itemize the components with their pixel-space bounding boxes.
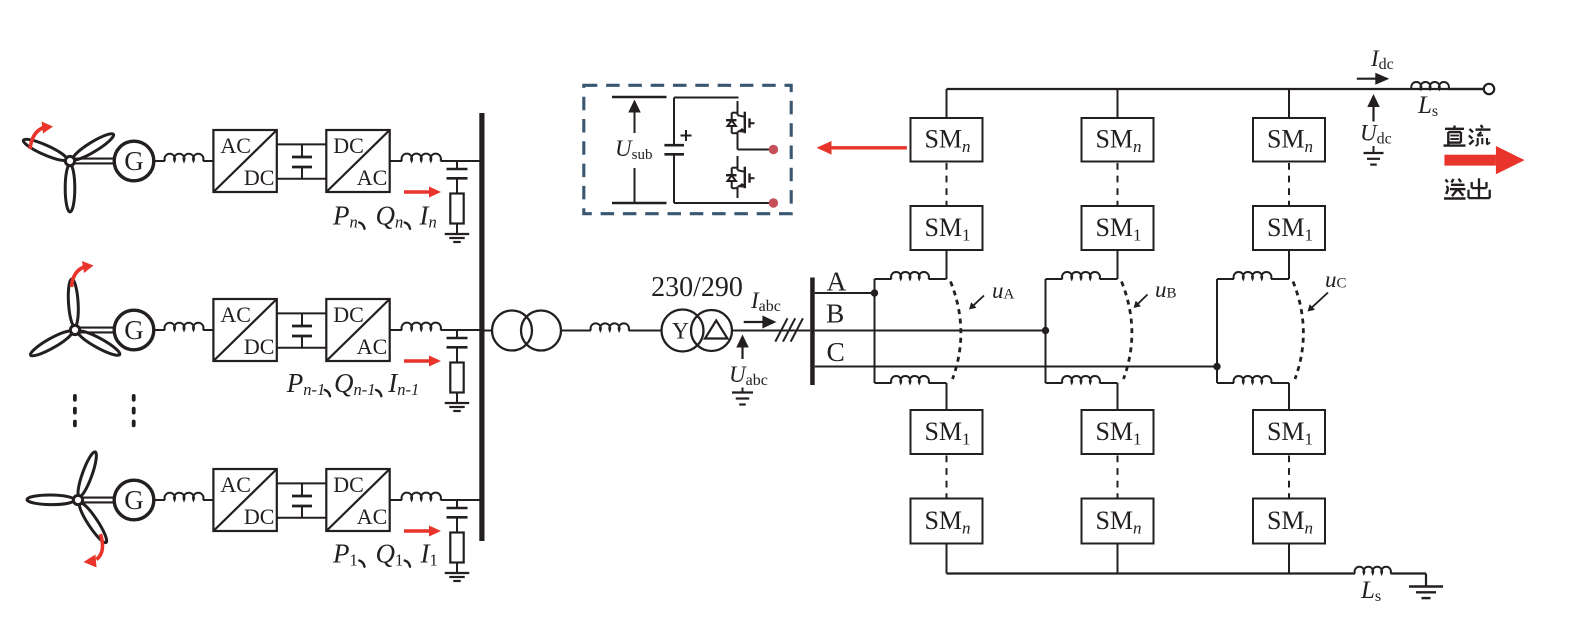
dashed link (phase B upper) [1117, 163, 1119, 206]
wire L2a to AC/DC [203, 329, 213, 331]
inductor L2b [402, 323, 441, 330]
shunt capacitor (WT3) [447, 500, 468, 533]
DC-link wires (WT3) [277, 483, 327, 517]
arm inductor (phase C lower) [1217, 376, 1289, 383]
svg-text:AC: AC [220, 133, 251, 158]
U_sub bottom reference bar [612, 202, 667, 205]
label phase C [827, 336, 845, 367]
label U_abc [729, 362, 768, 389]
generator G1 circle [114, 141, 154, 181]
wire L3b to busbar [441, 499, 482, 501]
wire L2b to busbar [441, 329, 482, 331]
label 230/290 [651, 272, 743, 303]
transformer T1 (two circles) [492, 311, 561, 351]
SM mid terminal (red dot) [769, 145, 778, 154]
label u_B [1134, 277, 1177, 308]
arm inductor (phase C upper) [1217, 272, 1289, 279]
wire DC bus to SMn (phase A upper) [946, 89, 948, 118]
label I_dc [1370, 46, 1394, 73]
inductor L1a [165, 154, 204, 161]
svg-text:G: G [124, 146, 144, 176]
wire L1a to AC/DC [203, 160, 213, 162]
wire L1b to busbar [441, 160, 482, 162]
wire arm inductor to SM1 (phase A lower) [946, 383, 948, 410]
ground (U_abc reference) [732, 388, 753, 405]
wire SM1 to arm inductor (phase A upper) [946, 250, 948, 279]
svg-text:AC: AC [220, 472, 251, 497]
submodule SMn box (phase C upper) [1253, 118, 1325, 162]
DC-link capacitor C1 [292, 144, 312, 178]
shunt resistor (WT1) [450, 194, 463, 224]
phase module dashed arc (phase C) [1293, 282, 1303, 380]
label I_abc [750, 288, 781, 315]
submodule detail dashed frame [584, 85, 791, 213]
node phase B junction [1042, 327, 1049, 334]
generator G3 circle [114, 480, 154, 520]
arm inductor (phase B lower) [1046, 376, 1118, 383]
line inductor [591, 323, 629, 330]
wind turbine WT2 shaft [79, 328, 115, 333]
wire T1 to Lline [561, 330, 591, 332]
transformer T2 Y/D (two circles) [662, 310, 733, 352]
svg-text:DC: DC [333, 133, 364, 158]
leg left wire (phase C) [1216, 279, 1218, 383]
converter AC/DC box (WT2) [213, 299, 276, 361]
DC-link wires (WT2) [277, 313, 327, 347]
power flow arrow (WT3, red) [404, 526, 441, 537]
ellipsis dots (more turbines) [75, 396, 134, 426]
submodule SMn box (phase A upper) [911, 118, 983, 162]
SM top rail [674, 97, 739, 99]
SM capacitor + sign [681, 130, 692, 141]
wind turbine WT3 hub [73, 495, 82, 504]
annotation 送出 (send out) [1444, 178, 1490, 198]
svg-text:DC: DC [244, 165, 275, 190]
SM capacitor [664, 98, 684, 204]
generator G3 label [124, 485, 144, 515]
wire G1 to L1a [154, 160, 165, 162]
DC bus top [947, 88, 1484, 90]
arm inductor (phase A upper) [875, 272, 947, 279]
svg-text:AC: AC [357, 504, 388, 529]
converter DC/AC box (WT3) [326, 469, 389, 531]
svg-text:DC: DC [333, 302, 364, 327]
generator G2 circle [114, 310, 154, 350]
wire SMn to DC bus (phase B lower) [1117, 544, 1119, 574]
node phase C junction [1213, 363, 1220, 370]
phase module dashed arc (phase A) [951, 282, 961, 380]
wire arm inductor to SM1 (phase B lower) [1117, 383, 1119, 410]
wind turbine WT3 shaft [82, 498, 115, 503]
wire Ls to ground [1391, 574, 1427, 587]
DC terminal (open circle) [1484, 84, 1494, 94]
wire SMn to DC bus (phase A lower) [946, 544, 948, 574]
T2 Y winding symbol [672, 319, 689, 345]
voltage arrow U_dc [1367, 94, 1380, 122]
inductor L2a [165, 323, 204, 330]
ground (DC bottom) [1409, 587, 1443, 599]
SM bottom terminal (red dot) [769, 198, 778, 207]
label P Q I (WT3) [332, 539, 438, 570]
wind turbine WT1 shaft [74, 159, 115, 164]
svg-text:AC: AC [357, 165, 388, 190]
submodule SMn box (phase A lower) [911, 499, 983, 544]
wire SM1 to arm inductor (phase C upper) [1288, 250, 1290, 279]
label Ls bottom [1360, 577, 1381, 605]
DC-link capacitor C3 [292, 483, 312, 517]
submodule SM1 box (phase B lower) [1082, 410, 1154, 454]
wire DC bus to SMn (phase B upper) [1117, 89, 1119, 118]
wire T2 to AC bus [732, 330, 810, 332]
svg-text:G: G [124, 315, 144, 345]
svg-text:Y: Y [672, 319, 689, 345]
rotation arrow WT1 (red) [30, 122, 53, 150]
wind turbine WT3 rotor blades [27, 450, 110, 545]
wire SM1 to arm inductor (phase B upper) [1117, 250, 1119, 279]
svg-text:230/290: 230/290 [651, 272, 743, 303]
shunt capacitor (WT1) [447, 161, 468, 194]
wind farm busbar (thick) [479, 113, 484, 541]
U_sub lower lead [634, 168, 636, 203]
shunt resistor (WT3) [450, 533, 463, 563]
DC bus bottom [947, 572, 1356, 574]
wire resistor to ground (WT1) [456, 224, 458, 235]
power flow arrow (WT2, red) [404, 356, 441, 367]
svg-text:DC: DC [244, 334, 275, 359]
inductor L3b [402, 493, 441, 500]
svg-text:DC: DC [333, 472, 364, 497]
current arrow I_dc [1357, 73, 1390, 85]
dashed link (phase C lower) [1288, 456, 1290, 499]
dashed link (phase B lower) [1117, 456, 1119, 499]
leg left wire (phase B) [1045, 279, 1047, 383]
wind turbine WT1 rotor blades [21, 130, 116, 212]
power flow arrow (WT1, red) [404, 187, 441, 198]
svg-text:B: B [826, 298, 844, 329]
detail pointer arrow (red) [817, 141, 907, 155]
dashed link (phase A upper) [946, 163, 948, 206]
converter DC/AC box (WT2) [326, 299, 389, 361]
submodule SMn box (phase B upper) [1082, 118, 1154, 162]
svg-text:G: G [124, 485, 144, 515]
smoothing inductor Ls top [1411, 82, 1449, 89]
svg-text:AC: AC [220, 302, 251, 327]
generator G2 label [124, 315, 144, 345]
SM mid output lead [738, 132, 770, 150]
phase module dashed arc (phase B) [1122, 282, 1132, 380]
converter DC/AC box (WT1) [326, 130, 389, 192]
dashed link (phase A lower) [946, 456, 948, 499]
submodule SM1 box (phase C upper) [1253, 206, 1325, 250]
svg-text:DC: DC [244, 504, 275, 529]
label u_A [969, 278, 1015, 310]
generator G1 label [124, 146, 144, 176]
wire Lline to T2 [629, 330, 662, 332]
wire busbar to transformer T1 [485, 330, 493, 332]
wire SMn to DC bus (phase C lower) [1288, 544, 1290, 574]
IGBT T2 (lower, with diode) [726, 156, 755, 198]
DC-link capacitor C2 [292, 313, 312, 347]
wire resistor to ground (WT2) [456, 393, 458, 404]
wire DC/AC to L2b [390, 329, 402, 331]
submodule SMn box (phase C lower) [1253, 499, 1325, 544]
leg left wire (phase A) [874, 279, 876, 383]
converter AC/DC box (WT1) [213, 130, 276, 192]
svg-text:A: A [827, 266, 847, 297]
wire phase C [815, 366, 1217, 368]
ground (U_dc reference) [1364, 146, 1384, 165]
DC output arrow (big red) [1444, 146, 1524, 174]
wind turbine WT2 hub [70, 325, 79, 334]
rotation arrow WT2 (red) [72, 261, 94, 287]
submodule SM1 box (phase C lower) [1253, 410, 1325, 454]
shunt resistor (WT2) [450, 363, 463, 393]
three-phase slash marks [775, 318, 803, 341]
wire phase B [815, 330, 1046, 332]
submodule SMn box (phase B lower) [1082, 499, 1154, 544]
wire Ls to terminal [1449, 88, 1484, 90]
inductor L1b [402, 154, 441, 161]
wire L3a to AC/DC [203, 499, 213, 501]
T2 delta winding symbol [705, 321, 728, 339]
rotation arrow WT3 (red) [84, 534, 103, 568]
label Ls top [1417, 92, 1438, 120]
wire G2 to L2a [154, 329, 165, 331]
voltage arrow U_abc [736, 335, 749, 360]
label phase B [826, 298, 844, 329]
IGBT T1 (upper, with diode) [726, 101, 755, 143]
wind turbine WT1 hub [65, 156, 74, 165]
wire phase A [815, 292, 875, 294]
label U_sub [615, 136, 652, 163]
converter AC/DC box (WT3) [213, 469, 276, 531]
smoothing inductor Ls bottom [1355, 567, 1391, 574]
wire DC/AC to L3b [390, 499, 402, 501]
label P Q I (WT1) [332, 201, 437, 232]
wire arm inductor to SM1 (phase C lower) [1288, 383, 1290, 410]
label u_C [1308, 267, 1347, 312]
inductor L3a [165, 493, 204, 500]
arm inductor (phase B upper) [1046, 272, 1118, 279]
submodule SM1 box (phase A upper) [911, 206, 983, 250]
dashed link (phase C upper) [1288, 163, 1290, 206]
AC bus A B C (thick) [810, 278, 815, 386]
wire resistor to ground (WT3) [456, 563, 458, 574]
ground (WT2 shunt) [445, 403, 470, 411]
U_sub arrow [628, 100, 641, 134]
svg-text:AC: AC [357, 334, 388, 359]
current arrow I_abc [744, 316, 777, 329]
wind turbine WT2 rotor blades [28, 279, 122, 359]
U_sub top reference bar [612, 96, 667, 99]
submodule SM1 box (phase B upper) [1082, 206, 1154, 250]
node phase A junction [871, 289, 878, 296]
wire DC/AC to L1b [390, 160, 402, 162]
arm inductor (phase A lower) [875, 376, 947, 383]
wire G3 to L3a [154, 499, 165, 501]
ground (WT3 shunt) [445, 573, 470, 581]
svg-text:C: C [827, 336, 845, 367]
label P Q I (WT2) [286, 368, 420, 399]
ground (WT1 shunt) [445, 234, 470, 242]
DC-link wires (WT1) [277, 144, 327, 178]
SM bottom rail [674, 202, 769, 204]
wire DC bus to SMn (phase C upper) [1288, 89, 1290, 118]
submodule SM1 box (phase A lower) [911, 410, 983, 454]
label U_dc [1360, 121, 1392, 148]
label phase A [827, 266, 847, 297]
shunt capacitor (WT2) [447, 330, 468, 363]
annotation 直流 (DC) [1444, 125, 1491, 146]
